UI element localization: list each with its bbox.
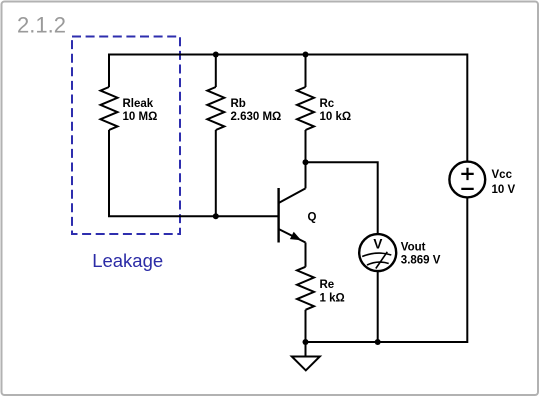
svg-text:V: V — [373, 236, 382, 251]
svg-text:10 kΩ: 10 kΩ — [320, 111, 352, 123]
svg-text:2.630 MΩ: 2.630 MΩ — [231, 111, 282, 123]
svg-text:Vcc: Vcc — [492, 169, 513, 181]
svg-text:Leakage: Leakage — [92, 250, 163, 271]
svg-text:1 kΩ: 1 kΩ — [320, 292, 345, 304]
svg-text:10 V: 10 V — [492, 184, 516, 196]
svg-text:Vout: Vout — [401, 242, 426, 254]
svg-text:Rc: Rc — [320, 98, 335, 110]
svg-text:2.1.2: 2.1.2 — [17, 13, 66, 38]
svg-text:Rleak: Rleak — [123, 98, 154, 110]
svg-text:10 MΩ: 10 MΩ — [123, 111, 158, 123]
svg-text:Rb: Rb — [231, 98, 246, 110]
svg-text:3.869 V: 3.869 V — [401, 255, 441, 267]
svg-text:Re: Re — [320, 279, 335, 291]
svg-text:Q: Q — [308, 211, 317, 223]
